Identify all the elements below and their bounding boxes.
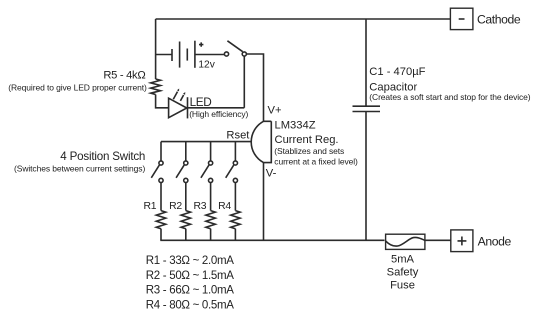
svg-text:R1 - 33Ω ~ 2.0mA: R1 - 33Ω ~ 2.0mA	[146, 255, 234, 267]
svg-text:12v: 12v	[198, 59, 215, 70]
svg-text:(Required to give LED proper c: (Required to give LED proper current)	[8, 82, 147, 92]
wire S4 to R4	[234, 183, 236, 211]
wire S2 to R2	[185, 183, 187, 211]
wire bottom bus	[160, 239, 384, 241]
svg-text:current at a fixed level): current at a fixed level)	[274, 156, 358, 166]
wire selector stub 2	[185, 142, 187, 161]
svg-text:R2: R2	[169, 201, 182, 212]
svg-text:R2 - 50Ω ~ 1.5mA: R2 - 50Ω ~ 1.5mA	[146, 270, 234, 282]
selector S1 bottom contact	[159, 178, 163, 182]
svg-text:R4: R4	[218, 201, 231, 212]
svg-text:LM334Z: LM334Z	[275, 119, 316, 131]
selector S2 bottom contact	[184, 178, 188, 182]
wire top cathode bus	[156, 18, 451, 20]
selector S1 lever	[151, 165, 159, 178]
wire R3 to bottom bus	[210, 229, 212, 241]
LED D1 emission arrow 1	[173, 92, 177, 100]
battery B1 plate short 2	[186, 49, 188, 61]
battery B1 plate tall 1	[179, 42, 181, 68]
selector S4 lever	[226, 165, 234, 178]
wire S3 to R3	[210, 183, 212, 211]
wire capacitor top	[365, 19, 367, 106]
selector S3 bottom contact	[209, 178, 213, 182]
svg-text:C1 - 470µF: C1 - 470µF	[369, 66, 425, 78]
fuse F1 wavy element	[386, 237, 425, 246]
battery B1 plate short 1	[171, 49, 173, 61]
svg-text:(Switches between current sett: (Switches between current settings)	[14, 164, 145, 174]
terminal box negative	[450, 8, 473, 29]
battery B1 plate tall 2	[194, 41, 196, 68]
LED D1 triangle	[169, 98, 187, 118]
switch SW1 lever	[227, 41, 242, 52]
wire Rset bus	[161, 141, 251, 143]
svg-text:R3 - 66Ω ~ 1.0mA: R3 - 66Ω ~ 1.0mA	[146, 285, 234, 297]
svg-text:(High efficiency): (High efficiency)	[189, 109, 248, 119]
resistor R1	[156, 211, 165, 229]
svg-text:Anode: Anode	[478, 235, 512, 249]
svg-text:5mA: 5mA	[391, 253, 415, 265]
svg-text:V+: V+	[268, 105, 282, 117]
selector S4 top contact	[233, 161, 237, 165]
terminal box positive	[451, 230, 473, 252]
selector S3 lever	[201, 165, 209, 178]
switch SW1 contact right	[242, 52, 246, 56]
selector S3 top contact	[209, 161, 213, 165]
svg-text:Cathode: Cathode	[477, 13, 521, 27]
svg-text:LED: LED	[190, 95, 212, 109]
wire V- to bottom bus	[263, 163, 265, 241]
battery plus sign	[199, 42, 203, 46]
wire R5 to LED corner	[156, 95, 169, 108]
wire R4 to bottom bus	[234, 229, 236, 241]
wire fuse to anode	[425, 239, 452, 241]
wire R2 to bottom bus	[185, 229, 187, 241]
capacitor C1 plate top	[353, 105, 381, 107]
svg-text:(Creates a soft start and stop: (Creates a soft start and stop for the d…	[369, 92, 530, 102]
selector S2 top contact	[184, 161, 188, 165]
svg-text:R4 - 80Ω ~ 0.5mA: R4 - 80Ω ~ 0.5mA	[146, 299, 234, 311]
svg-text:Rset: Rset	[226, 130, 250, 142]
selector S2 lever	[176, 165, 184, 178]
resistor R5	[151, 79, 161, 95]
svg-text:Current Reg.: Current Reg.	[275, 134, 339, 146]
svg-text:R3: R3	[194, 201, 207, 212]
resistor R4	[231, 211, 240, 229]
wire selector stub 4	[234, 142, 236, 161]
svg-text:4 Position Switch: 4 Position Switch	[60, 150, 145, 163]
resistor R3	[206, 211, 215, 229]
switch SW1 contact left	[224, 52, 228, 56]
plus sign in terminal	[458, 237, 467, 246]
svg-text:(Stablizes and sets: (Stablizes and sets	[274, 146, 344, 156]
svg-text:R5 - 4kΩ: R5 - 4kΩ	[103, 70, 145, 82]
wire switch down to LED node	[243, 56, 245, 108]
capacitor C1 plate bottom	[353, 111, 381, 113]
wire S1 to R1	[160, 183, 162, 211]
selector S1 top contact	[159, 161, 163, 165]
wire battery negative lead	[156, 54, 172, 56]
svg-text:Fuse: Fuse	[390, 279, 415, 291]
wire left vertical (battery/R5 branch)	[155, 19, 157, 79]
wire battery positive to switch	[195, 54, 224, 56]
wire capacitor bottom	[365, 112, 367, 241]
fuse F1 body	[386, 234, 425, 249]
svg-text:Safety: Safety	[387, 266, 419, 278]
selector S4 bottom contact	[233, 178, 237, 182]
regulator U1 LM334Z body	[251, 121, 271, 162]
wire R1 to bottom bus	[160, 229, 162, 241]
svg-text:R1: R1	[144, 201, 157, 212]
resistor R2	[181, 211, 190, 229]
LED D1 cathode bar	[187, 97, 189, 118]
wire selector stub 3	[210, 142, 212, 161]
svg-text:V-: V-	[266, 168, 277, 180]
wire switch to V+ corner	[246, 54, 263, 121]
wire selector stub 1	[160, 142, 162, 161]
wire LED anode to switch node	[187, 107, 245, 109]
LED D1 emission arrow 2	[180, 95, 183, 101]
minus sign in terminal	[459, 18, 465, 20]
